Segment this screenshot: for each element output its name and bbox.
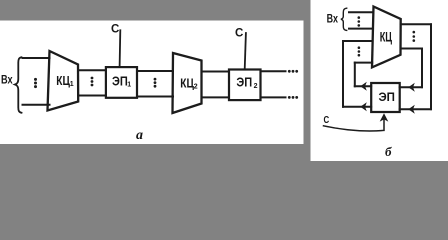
svg-text:2: 2	[194, 84, 198, 91]
svg-text:а: а	[136, 128, 143, 143]
svg-text:КЦ: КЦ	[380, 31, 393, 45]
svg-text:ЭП: ЭП	[236, 75, 252, 90]
svg-text:С: С	[235, 28, 243, 40]
svg-text:Вх: Вх	[327, 13, 339, 25]
svg-text:ЭП: ЭП	[379, 92, 395, 104]
svg-text:1: 1	[70, 81, 74, 88]
svg-text:КЦ: КЦ	[56, 74, 70, 88]
svg-text:Вх: Вх	[1, 75, 13, 87]
svg-text:1: 1	[127, 81, 131, 88]
svg-text:КЦ: КЦ	[180, 76, 194, 90]
svg-text:ЭП: ЭП	[112, 73, 128, 88]
svg-text:С: С	[324, 114, 330, 125]
svg-text:б: б	[385, 144, 392, 159]
svg-text:2: 2	[254, 83, 258, 90]
svg-text:С: С	[111, 23, 119, 35]
